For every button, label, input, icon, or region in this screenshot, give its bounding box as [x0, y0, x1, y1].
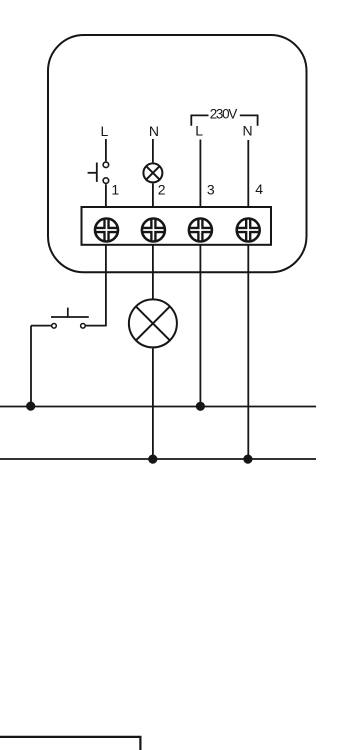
- svg-text:L: L: [195, 123, 203, 139]
- svg-text:230V: 230V: [210, 106, 238, 121]
- svg-text:3: 3: [207, 181, 215, 197]
- svg-text:4: 4: [255, 181, 263, 197]
- svg-text:L: L: [101, 123, 109, 139]
- svg-text:N: N: [243, 123, 253, 139]
- svg-text:2: 2: [158, 181, 166, 197]
- svg-text:1: 1: [111, 181, 119, 197]
- svg-text:N: N: [149, 123, 159, 139]
